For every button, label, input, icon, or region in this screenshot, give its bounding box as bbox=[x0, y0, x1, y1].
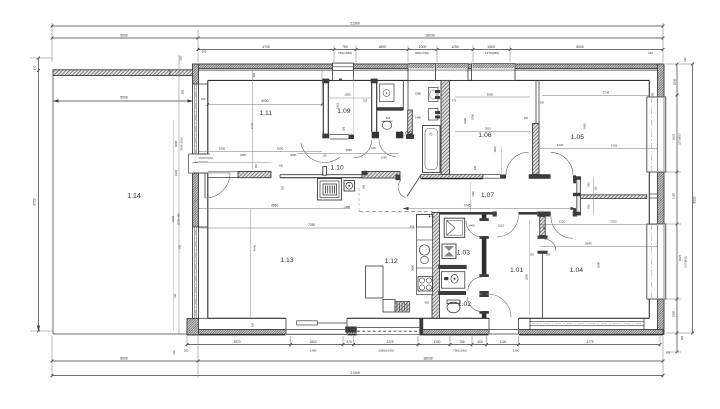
svg-text:500: 500 bbox=[477, 340, 483, 344]
svg-text:1480: 1480 bbox=[415, 116, 421, 120]
svg-text:1100: 1100 bbox=[471, 191, 475, 197]
svg-text:1.14: 1.14 bbox=[127, 193, 141, 200]
svg-text:2910: 2910 bbox=[485, 127, 492, 131]
svg-text:1375(965): 1375(965) bbox=[485, 51, 499, 55]
svg-text:180: 180 bbox=[279, 165, 284, 168]
svg-text:1400: 1400 bbox=[468, 224, 475, 228]
svg-text:3000: 3000 bbox=[174, 140, 178, 147]
svg-text:500: 500 bbox=[282, 185, 285, 190]
svg-text:106: 106 bbox=[546, 254, 551, 257]
svg-text:100: 100 bbox=[323, 155, 328, 158]
svg-text:3200: 3200 bbox=[463, 118, 467, 124]
svg-text:1800: 1800 bbox=[378, 45, 386, 49]
svg-text:1100: 1100 bbox=[434, 340, 441, 344]
svg-text:380: 380 bbox=[181, 89, 185, 94]
svg-text:3745: 3745 bbox=[603, 91, 610, 95]
svg-text:4775: 4775 bbox=[586, 340, 593, 344]
svg-text:1375(905): 1375(905) bbox=[684, 256, 688, 268]
svg-text:766: 766 bbox=[459, 340, 465, 344]
svg-text:1000: 1000 bbox=[219, 146, 226, 150]
svg-text:1.05: 1.05 bbox=[571, 134, 584, 141]
svg-text:4640: 4640 bbox=[253, 244, 257, 251]
svg-text:100: 100 bbox=[540, 102, 545, 105]
svg-text:16030: 16030 bbox=[425, 34, 435, 38]
svg-text:2225: 2225 bbox=[386, 340, 393, 344]
svg-text:2250: 2250 bbox=[240, 153, 246, 157]
svg-text:190: 190 bbox=[683, 57, 687, 62]
svg-text:455: 455 bbox=[425, 301, 430, 305]
svg-text:4700: 4700 bbox=[262, 45, 270, 49]
svg-text:8000: 8000 bbox=[693, 196, 697, 203]
svg-text:1.02: 1.02 bbox=[458, 301, 471, 308]
svg-text:150: 150 bbox=[342, 126, 346, 131]
svg-text:1000: 1000 bbox=[673, 78, 677, 85]
svg-text:3825: 3825 bbox=[678, 254, 682, 261]
svg-text:3090: 3090 bbox=[277, 146, 284, 150]
svg-text:1555: 1555 bbox=[344, 93, 351, 97]
svg-text:1000: 1000 bbox=[419, 45, 427, 49]
svg-text:1250: 1250 bbox=[451, 45, 459, 49]
svg-text:3080: 3080 bbox=[290, 153, 296, 157]
svg-text:300: 300 bbox=[363, 184, 366, 189]
svg-text:750(1630): 750(1630) bbox=[338, 51, 352, 55]
svg-text:2000: 2000 bbox=[583, 123, 587, 129]
svg-text:1.03: 1.03 bbox=[457, 250, 470, 257]
svg-text:125: 125 bbox=[363, 99, 368, 103]
svg-text:1.13: 1.13 bbox=[280, 257, 293, 264]
svg-text:1500: 1500 bbox=[487, 45, 495, 49]
svg-text:150: 150 bbox=[595, 186, 598, 191]
svg-text:1.11: 1.11 bbox=[259, 110, 272, 117]
svg-text:4650: 4650 bbox=[271, 204, 278, 208]
svg-text:550: 550 bbox=[179, 244, 182, 249]
svg-text:1800: 1800 bbox=[309, 340, 316, 344]
svg-text:750(1530): 750(1530) bbox=[453, 349, 467, 353]
svg-text:1.06: 1.06 bbox=[478, 132, 491, 139]
svg-text:635: 635 bbox=[587, 182, 591, 187]
svg-text:1150: 1150 bbox=[672, 193, 676, 200]
svg-text:900: 900 bbox=[386, 116, 391, 120]
svg-text:5000: 5000 bbox=[120, 96, 128, 100]
svg-text:3130: 3130 bbox=[250, 122, 254, 129]
svg-text:3000: 3000 bbox=[171, 215, 175, 222]
svg-text:160: 160 bbox=[666, 351, 671, 355]
svg-text:7745: 7745 bbox=[463, 204, 470, 208]
svg-text:1915: 1915 bbox=[336, 103, 340, 109]
svg-text:1940: 1940 bbox=[174, 170, 178, 176]
svg-text:1.10: 1.10 bbox=[330, 165, 343, 172]
svg-text:160: 160 bbox=[202, 50, 207, 54]
svg-text:1265: 1265 bbox=[381, 155, 387, 159]
svg-text:160: 160 bbox=[172, 350, 176, 355]
svg-text:750: 750 bbox=[342, 45, 348, 49]
svg-text:900(1790): 900(1790) bbox=[415, 51, 429, 55]
svg-text:1375(905): 1375(905) bbox=[679, 133, 682, 145]
svg-text:150: 150 bbox=[524, 117, 529, 120]
svg-text:7250: 7250 bbox=[308, 223, 315, 227]
svg-text:125: 125 bbox=[371, 146, 376, 150]
svg-text:1380: 1380 bbox=[344, 205, 350, 209]
svg-text:160: 160 bbox=[184, 349, 189, 353]
svg-text:1.12: 1.12 bbox=[385, 258, 398, 265]
svg-text:500: 500 bbox=[252, 322, 255, 327]
svg-text:1555: 1555 bbox=[345, 148, 352, 152]
svg-text:16030: 16030 bbox=[423, 356, 433, 360]
svg-text:2280: 2280 bbox=[310, 349, 317, 353]
svg-text:2530+480: 2530+480 bbox=[177, 213, 181, 225]
svg-text:330: 330 bbox=[473, 165, 477, 170]
svg-text:1.01: 1.01 bbox=[510, 267, 523, 274]
svg-text:250: 250 bbox=[33, 65, 37, 70]
svg-text:250: 250 bbox=[255, 163, 258, 168]
svg-text:3600: 3600 bbox=[411, 265, 415, 271]
svg-text:1900: 1900 bbox=[493, 146, 497, 152]
svg-text:3545: 3545 bbox=[585, 242, 592, 246]
svg-text:2325: 2325 bbox=[610, 219, 617, 223]
svg-text:5000: 5000 bbox=[576, 45, 584, 49]
svg-text:1420: 1420 bbox=[557, 143, 564, 147]
svg-text:2020+1030: 2020+1030 bbox=[180, 137, 184, 151]
svg-text:1500: 1500 bbox=[470, 114, 474, 120]
svg-text:380: 380 bbox=[543, 225, 546, 230]
svg-text:150: 150 bbox=[530, 254, 535, 257]
svg-text:3570: 3570 bbox=[233, 340, 240, 344]
svg-text:380: 380 bbox=[652, 92, 655, 97]
svg-text:360: 360 bbox=[680, 335, 684, 340]
svg-text:1000: 1000 bbox=[672, 310, 676, 317]
svg-text:3060: 3060 bbox=[487, 93, 494, 97]
svg-text:1.08: 1.08 bbox=[400, 131, 413, 138]
svg-text:4000: 4000 bbox=[261, 99, 268, 103]
svg-text:3825: 3825 bbox=[672, 133, 676, 140]
svg-text:375: 375 bbox=[346, 340, 352, 344]
svg-text:2505: 2505 bbox=[524, 274, 528, 280]
svg-text:1250(1030): 1250(1030) bbox=[378, 349, 393, 353]
svg-text:2380: 2380 bbox=[415, 92, 421, 96]
svg-text:1.04: 1.04 bbox=[570, 267, 583, 274]
svg-text:2000: 2000 bbox=[597, 262, 601, 268]
svg-text:2280: 2280 bbox=[513, 349, 520, 353]
svg-text:1220: 1220 bbox=[559, 219, 566, 223]
svg-text:8750: 8750 bbox=[33, 198, 37, 205]
svg-text:1100: 1100 bbox=[500, 340, 507, 344]
svg-text:1015: 1015 bbox=[498, 224, 505, 228]
svg-text:21300: 21300 bbox=[350, 22, 360, 26]
svg-text:160: 160 bbox=[648, 51, 653, 55]
svg-text:2325: 2325 bbox=[611, 144, 618, 148]
svg-text:635: 635 bbox=[587, 204, 591, 209]
svg-text:5000: 5000 bbox=[120, 356, 128, 360]
svg-text:5000: 5000 bbox=[120, 34, 128, 38]
svg-text:160: 160 bbox=[201, 97, 206, 101]
svg-text:160: 160 bbox=[174, 293, 177, 298]
svg-text:1.07: 1.07 bbox=[481, 192, 494, 199]
svg-text:175: 175 bbox=[452, 99, 457, 103]
svg-text:21300: 21300 bbox=[350, 371, 360, 375]
